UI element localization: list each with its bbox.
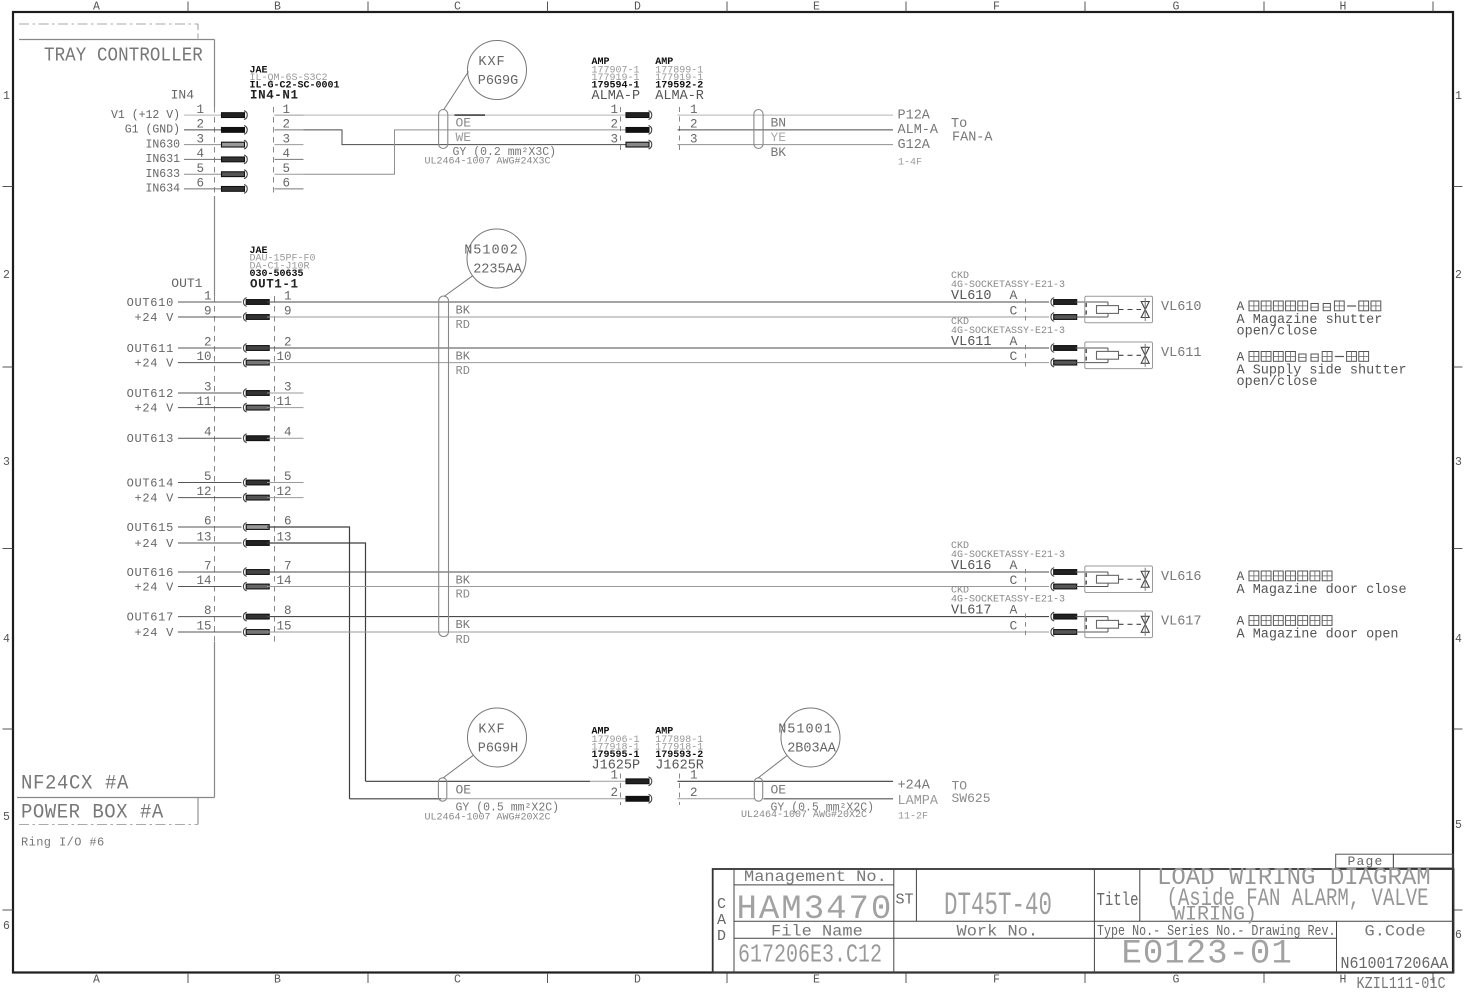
connector J1625P dashed boundary xyxy=(620,774,622,806)
wire stub IN4-N1 pin 4 xyxy=(275,158,304,160)
wire stub OUT1-1 pin 5 xyxy=(267,482,304,484)
svg-text:WE: WE xyxy=(456,130,472,145)
solenoid valve VL617 body xyxy=(1085,611,1153,638)
svg-text:11: 11 xyxy=(276,395,291,409)
svg-text:A: A xyxy=(1010,603,1018,618)
svg-text:OUT1: OUT1 xyxy=(171,276,202,291)
wire OUT617 to OUT1 pin 8 xyxy=(178,616,242,618)
svg-text:+24 V: +24 V xyxy=(134,492,174,506)
svg-text:Management No.: Management No. xyxy=(744,868,887,886)
wire OUT610 BK to valve xyxy=(267,301,1049,303)
actuation dashed link VL610 xyxy=(1119,309,1142,311)
svg-text:A: A xyxy=(1237,569,1245,584)
wire ALMA-R pin 2 to FAN-A xyxy=(678,129,894,131)
svg-text:3: 3 xyxy=(204,381,212,395)
svg-text:E: E xyxy=(813,974,820,987)
wire +24V RD to valve OUT616 xyxy=(267,586,1049,588)
svg-text:A: A xyxy=(717,912,726,929)
svg-text:OUT617: OUT617 xyxy=(127,611,174,625)
svg-text:2: 2 xyxy=(610,786,618,800)
svg-text:13: 13 xyxy=(196,531,211,545)
wire IN633 to IN4 pin 5 xyxy=(184,173,222,175)
wire +24 top run to J1625P pin1 xyxy=(366,780,591,782)
wire J1625R pin 2 to SW625 xyxy=(678,798,755,800)
svg-text:open/close: open/close xyxy=(1237,375,1318,390)
wire lamp bottom run to J1625P pin2 xyxy=(350,798,442,800)
svg-text:G: G xyxy=(1173,1,1180,14)
svg-text:BK: BK xyxy=(771,145,787,160)
contact OUT1-1 pin 6 xyxy=(243,523,246,532)
svg-text:3: 3 xyxy=(3,456,10,469)
contact OUT1-1 pin 1 xyxy=(243,298,246,307)
svg-text:C: C xyxy=(1010,619,1018,634)
connector dashed boundary VL611 xyxy=(1025,345,1027,367)
contact IN4-N1 pin 5 xyxy=(222,172,245,177)
svg-text:5: 5 xyxy=(1455,819,1462,832)
svg-text:7: 7 xyxy=(204,560,212,574)
svg-text:10: 10 xyxy=(276,350,291,364)
svg-text:OUT611: OUT611 xyxy=(127,342,174,356)
contact IN4-N1 pin 2 xyxy=(222,128,245,133)
svg-text:2: 2 xyxy=(690,786,698,800)
balloon N51002 2235AA xyxy=(467,229,526,288)
svg-text:1: 1 xyxy=(690,769,698,783)
valve symbol bowtie VL610 xyxy=(1141,302,1149,310)
svg-text:B: B xyxy=(274,974,281,987)
svg-text:A: A xyxy=(1010,558,1018,573)
svg-text:9: 9 xyxy=(284,305,292,319)
svg-text:617206E3.C12: 617206E3.C12 xyxy=(738,940,882,969)
contact OUT1-1 pin 3 xyxy=(243,389,246,398)
svg-text:A: A xyxy=(1010,334,1018,349)
wire OUT613 to OUT1 pin 4 xyxy=(178,437,242,439)
svg-text:1: 1 xyxy=(196,103,204,117)
wire +24V RD to valve OUT617 xyxy=(267,631,1049,633)
svg-text:VL617: VL617 xyxy=(1161,615,1202,630)
svg-text:1: 1 xyxy=(1455,90,1462,103)
svg-text:7: 7 xyxy=(284,560,292,574)
svg-text:P6G9H: P6G9H xyxy=(478,742,519,757)
svg-text:RD: RD xyxy=(456,633,470,647)
svg-text:+24 V: +24 V xyxy=(134,626,174,640)
svg-text:5: 5 xyxy=(196,162,204,176)
wire into valve coil A VL611 xyxy=(1076,347,1109,349)
wire +24V to OUT1 pin 9 xyxy=(178,316,242,318)
svg-text:IN4-N1: IN4-N1 xyxy=(250,89,299,103)
contact J1625 pin 2 xyxy=(626,796,649,801)
description JP VL610 xyxy=(1249,301,1259,311)
wire OUT616 BK to valve xyxy=(267,571,1049,573)
wire OUT616 to OUT1 pin 7 xyxy=(178,571,242,573)
contact ALMA pin 1 xyxy=(626,113,649,118)
wire G1 (GND) to IN4 pin 2 xyxy=(184,129,222,131)
connector dashed boundary VL610 xyxy=(1025,299,1027,321)
svg-text:1: 1 xyxy=(204,290,212,304)
wire V1 +12V pin1 to ALMA pin1 (OE) xyxy=(304,114,627,116)
svg-text:ST: ST xyxy=(896,892,914,909)
cable jacket GY 0.5mm2x2C capsule right xyxy=(754,778,762,801)
solenoid coil VL617 xyxy=(1097,620,1119,628)
svg-text:+24 V: +24 V xyxy=(134,402,174,416)
svg-text:NF24CX #A: NF24CX #A xyxy=(21,772,129,795)
svg-text:14: 14 xyxy=(276,574,291,588)
svg-text:D: D xyxy=(634,974,641,987)
wire stub OUT1-1 pin 3 xyxy=(267,392,304,394)
svg-text:KXF: KXF xyxy=(478,55,505,70)
node TRAY CONTROLLER box xyxy=(19,40,215,108)
wire into valve coil A VL610 xyxy=(1076,301,1109,303)
valve symbol bowtie VL611 xyxy=(1141,347,1149,355)
svg-text:G: G xyxy=(1173,974,1180,987)
node POWER BOX #A xyxy=(197,798,199,825)
solenoid coil VL616 xyxy=(1097,575,1119,583)
balloon N51001 2B03AA xyxy=(781,708,840,767)
svg-text:C: C xyxy=(1010,573,1018,588)
wire IN634 to IN4 pin 6 xyxy=(184,188,222,190)
contact VL610 pin A xyxy=(1051,298,1054,307)
svg-text:KXF: KXF xyxy=(478,723,505,738)
wire IN631 to IN4 pin 4 xyxy=(184,158,222,160)
contact OUT1-1 pin 5 xyxy=(243,478,246,487)
svg-text:6: 6 xyxy=(196,177,204,191)
svg-text:DT45T-40: DT45T-40 xyxy=(944,888,1052,924)
solenoid coil VL611 xyxy=(1097,351,1119,359)
contact VL611 pin A xyxy=(1051,344,1054,353)
contact VL617 pin C xyxy=(1051,628,1054,637)
connector ALMA-R dashed boundary xyxy=(679,107,681,150)
svg-text:OUT613: OUT613 xyxy=(127,432,174,446)
svg-text:UL2464-1007 AWG#20X2C: UL2464-1007 AWG#20X2C xyxy=(425,812,551,823)
contact VL617 pin A xyxy=(1051,612,1054,621)
svg-text:OE: OE xyxy=(456,783,472,798)
svg-text:2: 2 xyxy=(204,336,212,350)
svg-text:4: 4 xyxy=(196,147,204,161)
title block horizontal dividers xyxy=(734,884,894,886)
svg-text:C: C xyxy=(717,896,726,913)
svg-text:ALMA-R: ALMA-R xyxy=(655,89,704,104)
svg-text:H: H xyxy=(1340,974,1347,987)
wire OUT615 to OUT1 pin 6 xyxy=(178,526,242,528)
wire stub IN4-N1 pin 6 xyxy=(275,188,304,190)
svg-text:F: F xyxy=(993,1,1000,14)
solenoid valve VL610 body xyxy=(1085,296,1153,323)
wire +24V to lamp cable down xyxy=(267,543,366,781)
svg-text:2: 2 xyxy=(196,118,204,132)
svg-text:5: 5 xyxy=(3,811,10,824)
wire G1 GND pin2 jog down to ALMA pin3 (BK) xyxy=(304,130,627,145)
svg-text:6: 6 xyxy=(1455,929,1462,942)
wire J1625R pin 1 to SW625 xyxy=(678,780,894,782)
wire ALMA-R pin 3 to FAN-A xyxy=(678,144,894,146)
svg-text:VL611: VL611 xyxy=(951,335,992,350)
actuation dashed link VL616 xyxy=(1119,578,1142,580)
wire OUT615 to lamp cable down xyxy=(267,527,350,799)
svg-text:3: 3 xyxy=(196,132,204,146)
svg-text:2: 2 xyxy=(1455,269,1462,282)
svg-text:Title: Title xyxy=(1097,889,1139,910)
contact VL616 pin C xyxy=(1051,582,1054,591)
wire IN633 pin5 jog up to ALMA pin2 (WE) xyxy=(304,130,627,174)
svg-text:G1 (GND): G1 (GND) xyxy=(125,124,180,137)
title block vertical dividers xyxy=(733,869,735,973)
svg-text:H: H xyxy=(1340,1,1347,14)
connector OUT1-1 mating dashed boundary xyxy=(274,296,276,642)
svg-text:POWER BOX #A: POWER BOX #A xyxy=(21,801,164,824)
node TRAY CONTROLLER unit boundary dash-dot xyxy=(19,23,198,25)
wire OUT610 to OUT1 pin 1 xyxy=(178,301,242,303)
contact OUT1-1 pin 13 xyxy=(243,539,246,548)
wire +24V RD to valve OUT611 xyxy=(267,362,1049,364)
svg-text:RD: RD xyxy=(456,318,470,332)
svg-text:BK: BK xyxy=(456,349,471,363)
description JP VL617 xyxy=(1249,616,1259,626)
svg-text:Work No.: Work No. xyxy=(957,922,1039,940)
contact IN4-N1 pin 6 xyxy=(222,187,245,192)
svg-text:D: D xyxy=(717,928,726,945)
svg-text:C: C xyxy=(454,1,461,14)
svg-text:VL616: VL616 xyxy=(1161,570,1202,585)
svg-text:IN4: IN4 xyxy=(171,88,195,103)
svg-text:C: C xyxy=(1010,349,1018,364)
wire into valve coil C VL616 xyxy=(1076,586,1109,588)
wire stub IN4-N1 pin 1 xyxy=(275,114,304,116)
svg-text:F: F xyxy=(993,974,1000,987)
svg-text:2: 2 xyxy=(284,336,292,350)
cable jacket valve wiring capsule xyxy=(439,296,449,637)
svg-text:A: A xyxy=(1237,299,1245,314)
svg-text:SW625: SW625 xyxy=(952,791,991,806)
svg-text:4: 4 xyxy=(284,426,292,440)
svg-text:2: 2 xyxy=(3,269,10,282)
svg-text:A: A xyxy=(93,974,100,987)
svg-text:VL610: VL610 xyxy=(1161,300,1202,315)
contact OUT1-1 pin 8 xyxy=(243,612,246,621)
cable jacket GY 0.5mm2x2C capsule left xyxy=(438,778,446,801)
svg-text:A Magazine door close: A Magazine door close xyxy=(1237,583,1407,598)
wire ALMA-R pin 1 to FAN-A xyxy=(678,114,894,116)
svg-text:BK: BK xyxy=(456,618,471,632)
contact VL616 pin A xyxy=(1051,568,1054,577)
wire OUT611 to OUT1 pin 2 xyxy=(178,347,242,349)
svg-text:2235AA: 2235AA xyxy=(473,263,523,278)
connector ALMA-P dashed boundary xyxy=(620,107,622,150)
svg-text:TRAY CONTROLLER: TRAY CONTROLLER xyxy=(44,44,203,67)
svg-text:N610017206AA: N610017206AA xyxy=(1341,954,1449,973)
wire +24V to OUT1 pin 10 xyxy=(178,362,242,364)
connector OUT1 dashed boundary xyxy=(214,296,216,642)
contact ALMA pin 2 xyxy=(626,128,649,133)
svg-text:N51001: N51001 xyxy=(778,723,833,738)
svg-text:4: 4 xyxy=(1455,633,1462,646)
svg-text:C: C xyxy=(1010,304,1018,319)
svg-text:UL2464-1007 AWG#20X2C: UL2464-1007 AWG#20X2C xyxy=(741,810,867,821)
svg-text:2: 2 xyxy=(610,118,618,132)
svg-text:D: D xyxy=(634,1,641,14)
svg-text:C: C xyxy=(454,974,461,987)
solenoid valve VL611 body xyxy=(1085,342,1153,369)
wire OUT614 to OUT1 pin 5 xyxy=(178,482,242,484)
wire +24V to OUT1 pin 11 xyxy=(178,407,242,409)
svg-text:IN633: IN633 xyxy=(145,168,180,181)
svg-text:open/close: open/close xyxy=(1237,325,1318,340)
svg-text:UL2464-1007 AWG#24X3C: UL2464-1007 AWG#24X3C xyxy=(425,157,551,168)
balloon KXF P6G9G xyxy=(468,41,527,100)
wire into valve coil C VL610 xyxy=(1076,316,1109,318)
svg-text:A: A xyxy=(1237,350,1245,365)
wire into valve coil A VL617 xyxy=(1076,616,1109,618)
svg-text:12: 12 xyxy=(196,485,211,499)
svg-text:IN634: IN634 xyxy=(145,183,180,196)
svg-text:1-4F: 1-4F xyxy=(898,158,922,169)
svg-text:V1 (+12 V): V1 (+12 V) xyxy=(111,109,180,122)
svg-text:OUT612: OUT612 xyxy=(127,387,174,401)
svg-text:11-2F: 11-2F xyxy=(898,812,928,823)
svg-text:P6G9G: P6G9G xyxy=(478,74,519,89)
svg-text:1: 1 xyxy=(610,103,618,117)
contact IN4-N1 pin 3 xyxy=(222,142,245,147)
contact OUT1-1 pin 7 xyxy=(243,568,246,577)
svg-text:KZIL111-01C: KZIL111-01C xyxy=(1357,976,1446,992)
contact OUT1-1 pin 12 xyxy=(243,493,246,502)
svg-text:BK: BK xyxy=(456,303,471,317)
svg-text:A Magazine door open: A Magazine door open xyxy=(1237,627,1399,642)
actuation dashed link VL611 xyxy=(1119,354,1142,356)
svg-text:OE: OE xyxy=(456,115,472,130)
connector IN4-N1 mating dashed boundary xyxy=(273,107,275,196)
wire into valve coil C VL617 xyxy=(1076,631,1109,633)
svg-text:B: B xyxy=(274,1,281,14)
svg-text:11: 11 xyxy=(196,395,211,409)
svg-text:G.Code: G.Code xyxy=(1365,922,1426,940)
svg-text:P12A: P12A xyxy=(898,108,931,123)
svg-text:FAN-A: FAN-A xyxy=(952,131,993,146)
svg-text:BN: BN xyxy=(771,115,787,130)
svg-text:+24 V: +24 V xyxy=(134,581,174,595)
contact OUT1-1 pin 15 xyxy=(243,628,246,637)
svg-text:A: A xyxy=(1010,288,1018,303)
svg-text:E: E xyxy=(813,1,820,14)
wire OE emphasized segment xyxy=(455,114,486,116)
contact J1625 pin 1 xyxy=(626,779,649,784)
svg-text:Ring I/O #6: Ring I/O #6 xyxy=(21,836,105,850)
balloon KXF P6G9H xyxy=(468,708,527,767)
solenoid valve VL616 body xyxy=(1085,566,1153,593)
cable jacket GY 0.2mm2x3C capsule xyxy=(439,110,448,149)
svg-text:IN630: IN630 xyxy=(145,138,180,151)
svg-text:OUT615: OUT615 xyxy=(127,521,174,535)
svg-text:14: 14 xyxy=(196,574,211,588)
wire OUT611 BK to valve xyxy=(267,347,1049,349)
svg-text:RD: RD xyxy=(456,588,470,602)
svg-text:IN631: IN631 xyxy=(145,153,180,166)
wire +24V to OUT1 pin 14 xyxy=(178,586,242,588)
connector IN4 dashed boundary xyxy=(214,107,216,196)
svg-text:10: 10 xyxy=(196,350,211,364)
connector dashed boundary VL616 xyxy=(1025,569,1027,591)
description JP VL616 xyxy=(1249,571,1259,581)
wire +24V to OUT1 pin 13 xyxy=(178,542,242,544)
contact VL611 pin C xyxy=(1051,358,1054,367)
contact OUT1-1 pin 11 xyxy=(243,403,246,412)
wire into valve coil A VL616 xyxy=(1076,571,1109,573)
svg-text:File Name: File Name xyxy=(771,922,863,940)
svg-text:1: 1 xyxy=(3,90,10,103)
svg-text:3: 3 xyxy=(610,132,618,146)
wire stub OUT1-1 pin 4 xyxy=(267,437,304,439)
svg-text:VL610: VL610 xyxy=(951,289,992,304)
contact IN4-N1 pin 4 xyxy=(222,157,245,162)
contact OUT1-1 pin 9 xyxy=(243,313,246,322)
title block Page cell xyxy=(1336,854,1394,868)
contact VL610 pin C xyxy=(1051,313,1054,322)
svg-text:VL611: VL611 xyxy=(1161,346,1202,361)
svg-text:+24 V: +24 V xyxy=(134,537,174,551)
svg-text:9: 9 xyxy=(204,305,212,319)
svg-text:15: 15 xyxy=(276,620,291,634)
svg-text:E0123-01: E0123-01 xyxy=(1122,936,1293,974)
svg-text:12: 12 xyxy=(276,485,291,499)
svg-text:8: 8 xyxy=(284,604,292,618)
valve symbol bowtie VL616 xyxy=(1141,571,1149,579)
svg-text:OUT616: OUT616 xyxy=(127,566,174,580)
svg-text:N51002: N51002 xyxy=(464,244,519,259)
svg-text:+24A: +24A xyxy=(898,779,931,794)
wire V1 (+12 V) to IN4 pin 1 xyxy=(184,114,222,116)
svg-text:6: 6 xyxy=(204,515,212,529)
svg-text:3: 3 xyxy=(284,381,292,395)
contact ALMA pin 3 xyxy=(626,142,649,147)
svg-text:A: A xyxy=(93,1,100,14)
wire OUT612 to OUT1 pin 3 xyxy=(178,392,242,394)
wire +24V to OUT1 pin 15 xyxy=(178,631,242,633)
svg-text:RD: RD xyxy=(456,364,470,378)
contact OUT1-1 pin 14 xyxy=(243,582,246,591)
wire stub IN4-N1 pin 2 xyxy=(275,129,304,131)
connector dashed boundary VL617 xyxy=(1025,614,1027,636)
svg-text:G12A: G12A xyxy=(898,138,931,153)
svg-text:A: A xyxy=(1237,614,1245,629)
contact IN4-N1 pin 1 xyxy=(222,113,245,118)
svg-text:4: 4 xyxy=(3,633,10,646)
svg-text:BK: BK xyxy=(456,573,471,587)
valve symbol bowtie VL617 xyxy=(1141,616,1149,624)
svg-text:OE: OE xyxy=(771,783,787,798)
svg-text:VL617: VL617 xyxy=(951,604,992,619)
wire stub IN4-N1 pin 5 xyxy=(275,173,304,175)
wire IN630 to IN4 pin 3 xyxy=(184,144,222,146)
svg-text:ALMA-P: ALMA-P xyxy=(592,89,641,104)
svg-text:1: 1 xyxy=(610,769,618,783)
svg-text:OUT614: OUT614 xyxy=(127,477,174,491)
contact OUT1-1 pin 2 xyxy=(243,344,246,353)
description JP VL611 xyxy=(1249,352,1259,362)
svg-text:3: 3 xyxy=(1455,456,1462,469)
connector J1625R dashed boundary xyxy=(679,774,681,806)
svg-text:+24 V: +24 V xyxy=(134,357,174,371)
wire OUT617 BK to valve xyxy=(267,616,1049,618)
contact OUT1-1 pin 10 xyxy=(243,358,246,367)
actuation dashed link VL617 xyxy=(1119,623,1142,625)
svg-text:LAMPA: LAMPA xyxy=(898,794,939,809)
svg-text:5: 5 xyxy=(284,470,292,484)
wire +24V to OUT1 pin 12 xyxy=(178,497,242,499)
title block outer frame xyxy=(713,869,1454,973)
wire stub IN4-N1 pin 3 xyxy=(275,144,304,146)
wire into valve coil C VL611 xyxy=(1076,362,1109,364)
wire stub OUT1-1 pin 12 xyxy=(267,497,304,499)
svg-text:ALM-A: ALM-A xyxy=(898,123,939,138)
solenoid coil VL610 xyxy=(1097,306,1119,314)
